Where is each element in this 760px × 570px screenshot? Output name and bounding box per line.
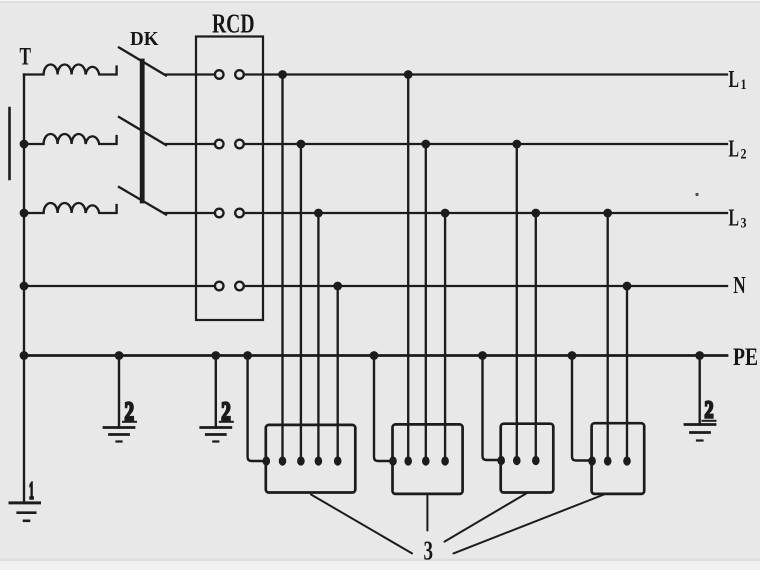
label net L3 <box>729 206 747 232</box>
svg-text:3: 3 <box>424 536 434 566</box>
socket XS4 PE terminal <box>588 456 596 465</box>
junction: L2 tap at x301 <box>297 140 306 149</box>
leader line from socket XS4 to label 3 <box>454 495 605 554</box>
socket XS3 L2 terminal <box>513 456 521 465</box>
junction: PE at x216 <box>211 351 220 360</box>
wire: DK to RCD pole 3 <box>165 212 215 214</box>
wire: PE elbow to socket XS3 <box>483 356 499 461</box>
socket XS1 PE terminal <box>263 456 271 465</box>
socket XS1 box (3P+N+PE) <box>266 425 356 493</box>
junction: L1 tap at x408 <box>404 70 413 79</box>
svg-text:1: 1 <box>29 479 34 505</box>
ground: working earth 1 at transformer <box>10 503 40 521</box>
socket XS2 PE terminal <box>389 456 397 465</box>
transformer T core bar <box>8 108 11 179</box>
svg-text:L: L <box>729 137 740 163</box>
wire: DK to RCD pole 1 <box>165 73 215 75</box>
RCD pole 1 output terminal circle <box>235 70 244 79</box>
wire: DK to RCD pole 2 <box>165 143 215 145</box>
socket XS1 L1 terminal <box>279 456 287 465</box>
wire: PE elbow to socket XS2 <box>374 356 390 462</box>
wire: drop L1 to socket XS1 <box>281 75 283 458</box>
RCD pole 2 output terminal circle <box>235 140 244 149</box>
ground: repeated earth 2a <box>104 428 134 442</box>
socket XS3 box <box>501 424 554 493</box>
transformer T winding 3 (phase L3) <box>24 203 117 213</box>
svg-text:DK: DK <box>130 28 159 50</box>
leader line from socket XS3 to label 3 <box>445 493 528 542</box>
junction: L3 tap at x608 <box>603 209 612 218</box>
junction: PE at x119 <box>115 351 124 360</box>
socket XS1 L2 terminal <box>297 456 305 465</box>
socket XS3 PE terminal <box>497 456 505 465</box>
svg-text:L: L <box>729 206 740 232</box>
wire: drop L3 to socket XS2 <box>444 213 446 457</box>
label net L1 <box>729 67 747 93</box>
wire: PE tap to earth electrode 2b <box>215 356 217 428</box>
wire: drop L1 to socket XS2 <box>407 75 409 458</box>
svg-text:T: T <box>20 44 32 71</box>
RCD U1 enclosure box <box>196 37 263 321</box>
junction: N tap at x627 <box>623 282 632 291</box>
SCAN-ARTIFACTS <box>0 559 760 562</box>
junction: N bus to star bus <box>20 282 29 291</box>
wire: bus L3 <box>244 212 727 214</box>
wire: PE tap to earth electrode 2c <box>699 356 701 425</box>
label net L2 <box>729 137 747 163</box>
wire: drop N to socket XS4 <box>626 286 628 457</box>
wire: N bus from transformer to RCD pole 4 <box>24 285 215 287</box>
RCD pole 1 input terminal circle <box>215 70 224 79</box>
scan speck near L3 label <box>695 193 698 196</box>
junction: PE at x374 <box>370 351 379 360</box>
wire: bus L2 <box>244 143 727 145</box>
svg-text:1: 1 <box>741 77 747 93</box>
socket XS3 L3 terminal <box>532 456 540 465</box>
svg-text:2: 2 <box>741 147 747 163</box>
socket XS2 L1 terminal <box>404 456 412 465</box>
leader line from socket XS1 to label 3 <box>311 495 412 554</box>
socket XS1 L3 terminal <box>315 456 323 465</box>
switch DK blade 3 <box>119 187 166 215</box>
wire: bus L1 <box>244 73 727 75</box>
label 2 (earth 2a) <box>123 397 136 426</box>
wire: drop L2 to socket XS1 <box>300 144 302 457</box>
RCD pole 4 output terminal circle <box>235 282 244 291</box>
RCD pole 2 input terminal circle <box>215 140 224 149</box>
ground: repeated earth 2b <box>201 428 231 442</box>
switch DK blade 1 <box>119 48 166 76</box>
wire: drop L2 to socket XS3 <box>516 144 518 457</box>
socket XS2 box (3P+PE) <box>393 424 463 494</box>
junction: winding3 to star bus <box>20 209 29 218</box>
svg-text:3: 3 <box>741 216 747 232</box>
junction: PE at x700 <box>695 351 704 360</box>
junction: PE bus to star bus <box>20 351 29 360</box>
wire: drop L3 to socket XS4 <box>607 213 609 457</box>
junction: L2 tap at x517 <box>512 140 521 149</box>
switch DK blade 2 <box>119 117 166 145</box>
socket XS4 N terminal <box>623 456 631 465</box>
ground: repeated earth 2c <box>685 425 715 441</box>
junction: winding2 to star bus <box>20 140 29 149</box>
wire: bus PE <box>24 354 727 357</box>
svg-text:2: 2 <box>705 398 714 424</box>
junction: L3 tap at x536 <box>531 209 540 218</box>
socket XS2 L3 terminal <box>441 456 449 465</box>
wire: PE elbow to socket XS4 <box>572 356 589 461</box>
label 2 (earth 2c) <box>703 398 716 424</box>
socket XS1 N terminal <box>334 456 342 465</box>
transformer T winding 1 (phase L1) <box>24 65 117 75</box>
wire: PE tap to earth electrode 2a <box>118 356 120 428</box>
junction: PE at x482 <box>478 351 487 360</box>
wire: drop L3 to socket XS3 <box>535 213 537 457</box>
wire: drop L3 to socket XS1 <box>317 213 319 457</box>
junction: L3 tap at x445 <box>441 209 450 218</box>
transformer T winding 2 (phase L2) <box>24 134 117 144</box>
junction: PE at x572 <box>568 351 577 360</box>
socket XS2 L2 terminal <box>422 456 430 465</box>
junction: L1 tap at x283 <box>278 70 287 79</box>
wire: bus N <box>244 285 727 287</box>
switch DK linkage bar <box>140 61 145 201</box>
svg-text:L: L <box>729 67 740 93</box>
socket XS4 L3 terminal <box>604 456 612 465</box>
wire: PE elbow to socket XS1 <box>248 356 263 462</box>
svg-text:N: N <box>733 273 746 299</box>
svg-text:PE: PE <box>733 344 758 371</box>
junction: PE at x248 <box>243 351 252 360</box>
wire: drop L2 to socket XS2 <box>425 144 427 457</box>
RCD pole 3 output terminal circle <box>235 209 244 218</box>
RCD pole 4 input terminal circle <box>215 282 224 291</box>
wire: transformer star-point bus (x=24, L1 down to ground 1) <box>23 75 25 503</box>
socket XS4 box (1P+N+PE) <box>592 423 645 494</box>
junction: L2 tap at x426 <box>421 140 430 149</box>
junction: N tap at x337 <box>333 282 342 291</box>
svg-text:RCD: RCD <box>212 9 255 39</box>
label 2 (earth 2b) <box>220 397 233 426</box>
junction: L3 tap at x318 <box>314 209 323 218</box>
RCD pole 3 input terminal circle <box>215 209 224 218</box>
wire: drop N to socket XS1 <box>337 286 339 457</box>
leader line from socket XS2 to label 3 <box>426 494 428 531</box>
